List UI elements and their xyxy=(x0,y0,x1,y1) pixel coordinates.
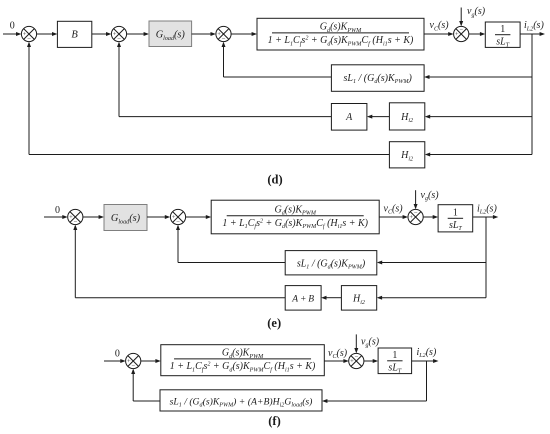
wire: plant to S4 (d) xyxy=(424,32,454,36)
block 1/sLT (d) xyxy=(485,22,520,49)
svg-text:iL2​(s): iL2​(s) xyxy=(417,347,437,359)
wire: plant to S3e (e) xyxy=(379,215,408,219)
block A (d) xyxy=(331,104,367,131)
wire: output iL2 (e) xyxy=(473,215,499,219)
svg-text:0: 0 xyxy=(55,205,60,216)
block plant transfer function (f) xyxy=(161,345,324,376)
block sL1/(Gd(s)KPWM) (d) xyxy=(331,65,424,92)
block sL1/(Gd(s)KPWM) (e) xyxy=(285,251,377,275)
svg-text:+: + xyxy=(172,214,176,221)
svg-text:vC​(s): vC​(s) xyxy=(430,20,450,32)
summing junction S2f (f) xyxy=(349,353,364,368)
wire: A+B output to S1e (e) xyxy=(73,225,285,298)
wire: S1 to block B (d) xyxy=(37,32,58,36)
svg-text:vC​(s): vC​(s) xyxy=(328,348,348,360)
svg-text:(d): (d) xyxy=(267,173,282,187)
svg-text:1: 1 xyxy=(453,208,458,219)
block B (d) xyxy=(57,21,91,47)
wire: Hi2 row4 output to S1 (d) xyxy=(27,42,389,155)
block Gload(s) lead compensator (e) xyxy=(104,205,147,231)
block plant transfer function Gd(s)KPWM/(1+L1Cfs2+Gd(s)KPWMCf(Hi1s+K)) (d) xyxy=(257,18,424,50)
svg-text:(f): (f) xyxy=(268,414,281,428)
svg-text:−: − xyxy=(354,354,358,361)
wire: feedback row2 to sL1 block (e) xyxy=(377,261,486,265)
svg-text:1 + L1​Cf​s2​ + Gd​(s)KPWM​Cf​: 1 + L1​Cf​s2​ + Gd​(s)KPWM​Cf​ (Hi1​s + … xyxy=(222,218,368,230)
wire: B to S2 (d) xyxy=(92,32,112,36)
wire: output iL2 (f) xyxy=(412,359,439,363)
svg-text:1 + L1​Cf​s2​ + Gd​(s)KPWM​Cf​: 1 + L1​Cf​s2​ + Gd​(s)KPWM​Cf​ (Hi1​s + … xyxy=(170,361,316,373)
svg-text:(e): (e) xyxy=(267,316,281,330)
block plant transfer function (e) xyxy=(211,200,379,234)
wire: vg(s) into S3e from top (e) xyxy=(414,190,418,209)
svg-text:vg​(s): vg​(s) xyxy=(361,336,380,348)
wire: S1f to plant block (f) xyxy=(141,359,161,363)
svg-text:+: + xyxy=(350,358,354,365)
wire: S3e to 1/sLT block (e) xyxy=(423,215,438,219)
wire: S3 to plant block (d) xyxy=(231,32,257,36)
svg-text:B: B xyxy=(71,30,78,41)
wire: Gload to S2e (e) xyxy=(147,215,170,219)
svg-text:+: + xyxy=(127,358,131,365)
svg-text:A: A xyxy=(345,112,353,123)
wire: feedback row into combined block (f) xyxy=(322,399,427,403)
svg-text:−: − xyxy=(459,27,463,34)
block Hi2 sensor row4 (d) xyxy=(389,142,424,168)
wire: output feedback tap vertical (e) xyxy=(485,217,487,298)
svg-text:sL1​ / (Gd​(s)KPWM​) + (A+B)Hi: sL1​ / (Gd​(s)KPWM​) + (A+B)Hi2​Gload​(s… xyxy=(170,396,313,408)
block Gload(s) lead compensator (d) xyxy=(149,21,192,47)
summing junction S4 (d) xyxy=(454,26,469,41)
svg-text:1: 1 xyxy=(500,24,505,35)
wire: Hi2 to A (d) xyxy=(367,115,390,119)
block 1/sLT (e) xyxy=(438,205,473,233)
wire: S2 to Gload (d) xyxy=(127,32,149,36)
svg-text:1: 1 xyxy=(392,350,397,361)
wire: S2f to 1/sLT block (f) xyxy=(364,359,378,363)
svg-text:+: + xyxy=(409,214,413,221)
svg-text:iL2​(s): iL2​(s) xyxy=(477,203,497,215)
wire: feedback row3 to Hi2 (e) xyxy=(377,296,486,300)
wire: sL1 block output to S3 (d) xyxy=(222,42,332,77)
svg-text:+: + xyxy=(69,214,73,221)
block Hi2 sensor row3 (d) xyxy=(389,103,424,130)
wire: S2e to plant block (e) xyxy=(186,215,212,219)
svg-text:A + B: A + B xyxy=(291,295,314,305)
wire: S1e to Gload (e) xyxy=(83,215,104,219)
wire: plant to S2f (f) xyxy=(324,359,349,363)
svg-text:+: + xyxy=(217,31,221,38)
wire: vg(s) into S2f from top (f) xyxy=(354,334,358,353)
wire: vg(s) into S4 from top (d) xyxy=(459,8,463,27)
wire: A output to S2 (d) xyxy=(117,42,331,117)
wire: input into S1f (f) xyxy=(104,359,126,363)
block A+B (e) xyxy=(285,286,321,311)
svg-text:+: + xyxy=(23,31,27,38)
block Hi2 sensor (e) xyxy=(341,286,376,311)
summing junction S1e (e) xyxy=(68,209,83,226)
summing junction S1f (f) xyxy=(126,353,141,370)
summing junction S3e (e) xyxy=(408,209,423,224)
wire: output feedback tap vertical (d) xyxy=(531,34,533,155)
summing junction S2 (d) xyxy=(111,26,126,43)
wire: feedback row to sL1 block (d) xyxy=(424,75,532,79)
svg-text:0: 0 xyxy=(10,21,15,32)
svg-text:+: + xyxy=(455,31,459,38)
wire: input into S1 (d) xyxy=(3,32,21,36)
svg-text:1 + L1​Cf​s2​ + Gd​(s)KPWM​Cf​: 1 + L1​Cf​s2​ + Gd​(s)KPWM​Cf​ (Hi1​s + … xyxy=(268,35,414,47)
summing junction S3 (d) xyxy=(216,26,231,43)
wire: feedback row3 from tap to Hi2 (d) xyxy=(425,115,532,119)
wire: Gload to S3 (d) xyxy=(192,32,216,36)
summing junction S1 (d) xyxy=(21,26,36,43)
svg-text:vg​(s): vg​(s) xyxy=(467,6,486,18)
wire: Hi2 to A+B (e) xyxy=(321,296,341,300)
block sL1/(Gd(s)KPWM)+(A+B)Hi2Gload(s) combined feedback (f) xyxy=(160,390,322,411)
wire: sL1 block output to S2e (e) xyxy=(176,225,285,263)
wire: S4 to 1/sLT block (d) xyxy=(469,32,486,36)
block 1/sLT (f) xyxy=(378,348,412,375)
svg-text:iL2​(s): iL2​(s) xyxy=(524,20,544,32)
wire: feedback row4 from tap to Hi2 (d) xyxy=(425,153,532,157)
svg-text:0: 0 xyxy=(115,349,120,360)
wire: combined feedback block output to S1f (f) xyxy=(131,369,160,401)
svg-text:−: − xyxy=(414,210,418,217)
wire: output feedback tap vertical (f) xyxy=(426,361,428,401)
svg-text:+: + xyxy=(113,31,117,38)
summing junction S2e (e) xyxy=(170,209,185,226)
wire: input into S1e (e) xyxy=(44,215,68,219)
svg-text:vC​(s): vC​(s) xyxy=(384,203,404,215)
svg-text:vg​(s): vg​(s) xyxy=(421,190,440,202)
wire: output iL2 (d) xyxy=(520,32,545,36)
